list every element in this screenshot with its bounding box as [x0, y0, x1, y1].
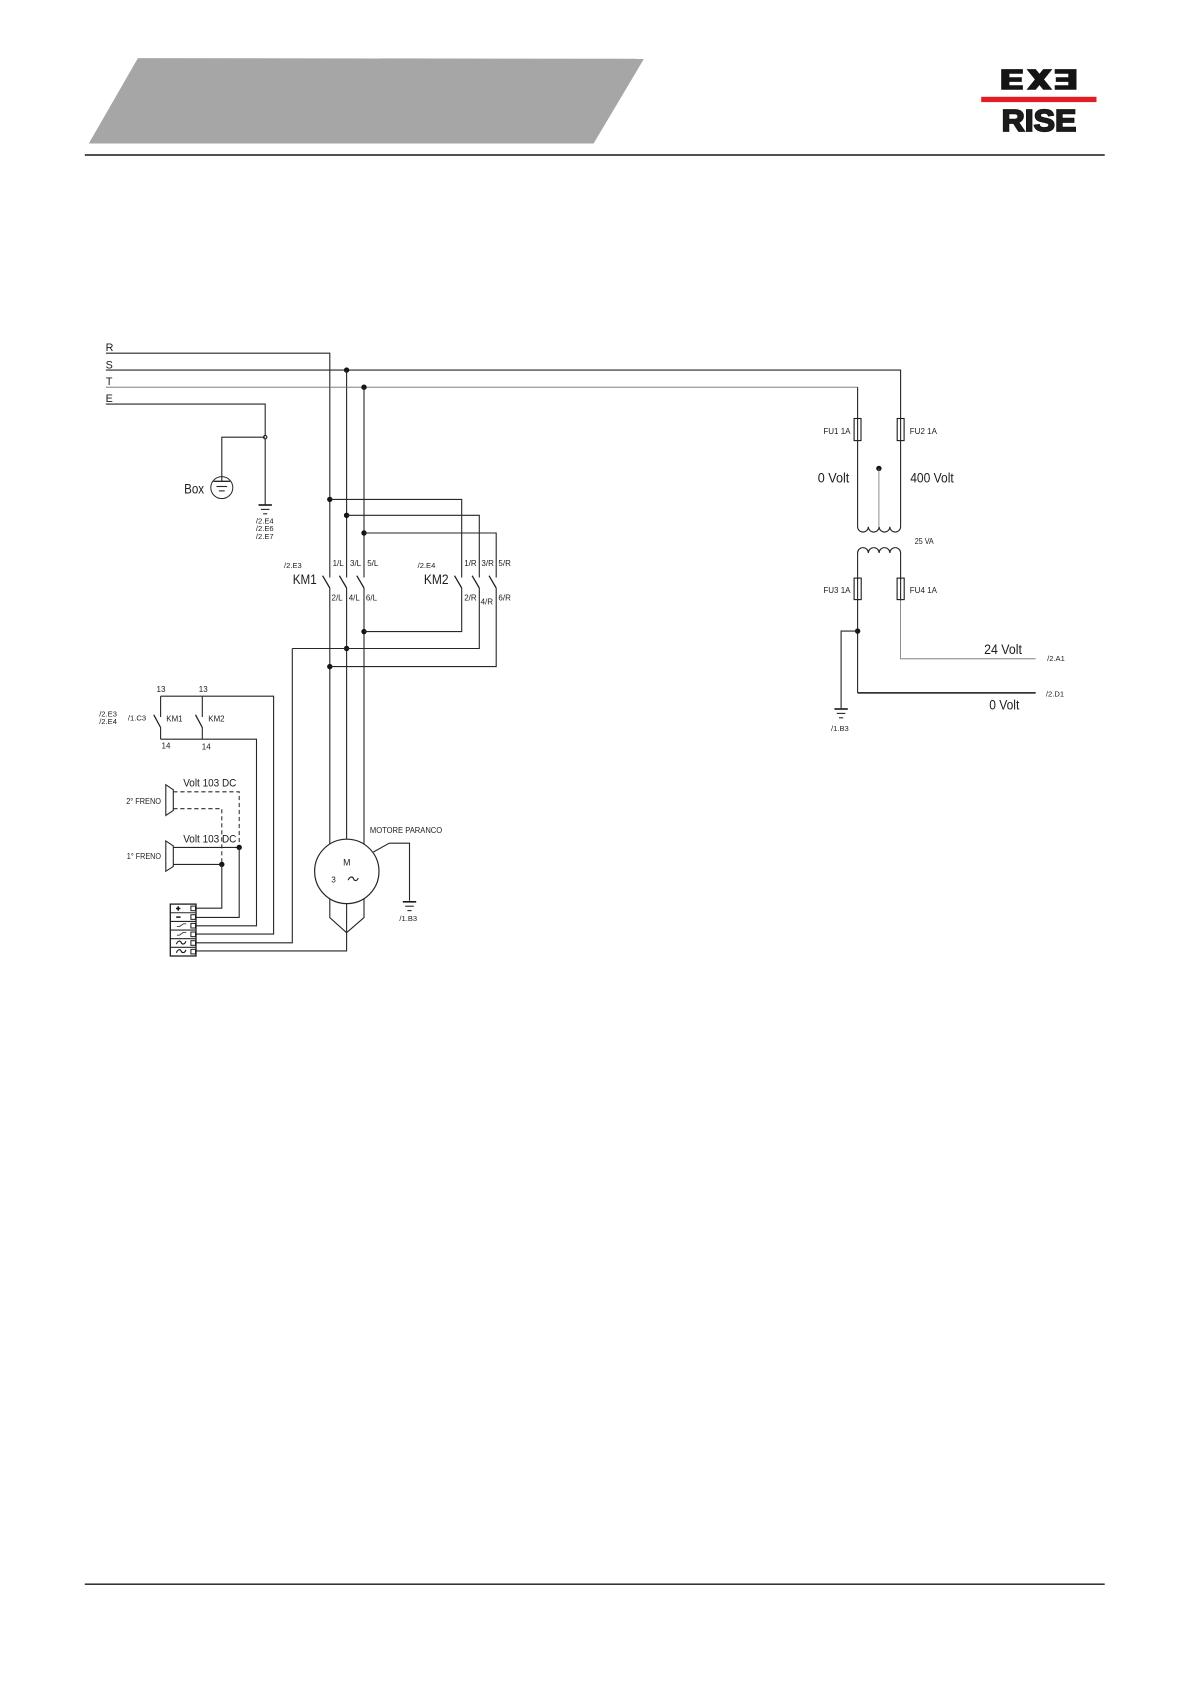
- wire brake2 minus (dashed): [173, 809, 222, 865]
- brake 2 coil symbol: [166, 785, 174, 816]
- wire E rail: [106, 404, 265, 504]
- logo EXE wordmark: [1001, 69, 1076, 90]
- svg-text:R: R: [106, 342, 114, 354]
- wire 24 Volt output: [901, 600, 1036, 659]
- svg-text:14: 14: [202, 742, 211, 751]
- footer rule line: [85, 1583, 1105, 1585]
- transformer TC1 primary winding: [858, 419, 901, 533]
- wire primary center tap: [878, 468, 880, 526]
- wire brake2 plus (dashed): [173, 792, 239, 848]
- svg-text:E: E: [106, 393, 113, 405]
- wire S rail: [106, 370, 901, 418]
- svg-text:T: T: [106, 376, 113, 388]
- aux contact KM1 bottom pin: [160, 728, 162, 740]
- wire motor star left: [330, 899, 347, 933]
- motor tilde: [348, 877, 358, 881]
- node R branch: [327, 497, 332, 502]
- terminal 4 clamp square: [191, 932, 196, 937]
- fuse FU3: [854, 578, 861, 600]
- wire R rail: [106, 353, 330, 577]
- svg-text:/2.D1: /2.D1: [1046, 690, 1064, 699]
- svg-text:KM2: KM2: [208, 714, 225, 723]
- wire phase W to motor: [363, 588, 365, 844]
- ground PE symbol: [259, 505, 272, 514]
- svg-text:5/R: 5/R: [498, 559, 511, 568]
- node T junction: [361, 385, 366, 390]
- node secondary ground junction: [855, 628, 860, 633]
- wire R branch to KM2 1/R: [330, 499, 462, 577]
- svg-text:0 Volt: 0 Volt: [818, 470, 850, 486]
- node brake minus junction: [219, 862, 224, 867]
- terminal 4 dc mark: [177, 932, 186, 935]
- svg-text:2° FRENO: 2° FRENO: [126, 797, 161, 806]
- svg-text:25 VA: 25 VA: [915, 537, 934, 546]
- svg-text:KM1: KM1: [166, 714, 183, 723]
- terminal 5 clamp square: [191, 941, 196, 946]
- node E branch ring: [264, 436, 267, 439]
- terminal 3 dc mark: [177, 924, 186, 927]
- wire T rail: [106, 386, 858, 388]
- secondary ground symbol: [834, 709, 847, 718]
- wire brake minus to terminal 1: [196, 864, 222, 908]
- svg-text:13: 13: [157, 685, 166, 694]
- aux contact KM2 top pin: [201, 696, 203, 717]
- svg-text:KM2: KM2: [424, 572, 449, 588]
- terminal 1 clamp square: [191, 906, 196, 911]
- svg-text:FU3 1A: FU3 1A: [823, 586, 851, 595]
- svg-text:3/L: 3/L: [350, 559, 362, 568]
- contactor KM2 pole 1 blade: [455, 576, 462, 588]
- svg-text:/2.E4: /2.E4: [418, 561, 436, 570]
- node T branch: [361, 530, 366, 535]
- svg-text:400 Volt: 400 Volt: [910, 470, 954, 486]
- wire to secondary ground: [841, 631, 858, 708]
- header rule line: [85, 154, 1105, 156]
- node S junction: [344, 367, 349, 372]
- fuse FU4: [897, 578, 904, 600]
- wire motor frame to ground: [373, 843, 409, 901]
- svg-text:14: 14: [162, 741, 171, 750]
- svg-text:M: M: [343, 858, 350, 868]
- aux contact KM1 top pin: [160, 696, 162, 717]
- svg-text:5/L: 5/L: [367, 559, 379, 568]
- Box earth electrode: [211, 477, 233, 499]
- svg-text:MOTORE PARANCO: MOTORE PARANCO: [370, 826, 442, 835]
- svg-text:KM1: KM1: [293, 572, 317, 588]
- terminal 2 minus mark: [176, 916, 180, 918]
- wire phase V to motor: [346, 588, 348, 839]
- svg-text:/2.E4: /2.E4: [99, 717, 117, 726]
- svg-text:3: 3: [331, 875, 336, 884]
- node V-4R junction: [344, 646, 349, 651]
- fuse FU1: [854, 419, 861, 441]
- svg-text:13: 13: [199, 685, 208, 694]
- node primary tap: [876, 466, 881, 471]
- svg-text:1° FRENO: 1° FRENO: [127, 852, 161, 861]
- wire T drop to FU1: [857, 387, 859, 418]
- terminal 6 clamp square: [191, 949, 196, 954]
- wire phase U to motor: [329, 588, 331, 844]
- logo red underline: [981, 97, 1096, 102]
- wire aux top rail to terminal 4: [161, 696, 274, 934]
- svg-text:/2.A1: /2.A1: [1047, 654, 1065, 663]
- svg-text:0 Volt: 0 Volt: [989, 697, 1019, 713]
- header gray parallelogram banner: [89, 58, 644, 143]
- svg-text:FU1 1A: FU1 1A: [823, 427, 851, 436]
- svg-text:FU2 1A: FU2 1A: [910, 427, 938, 436]
- wire T drop to KM1 5/L: [363, 387, 365, 577]
- svg-text:/1.B3: /1.B3: [399, 914, 417, 923]
- node W-2R junction: [361, 629, 366, 634]
- wire 2/L to 6/R: [330, 588, 496, 667]
- fuse FU2: [897, 419, 904, 441]
- svg-text:Volt 103 DC: Volt 103 DC: [183, 834, 236, 846]
- terminal block X1: [170, 904, 196, 956]
- svg-text:RISE: RISE: [1002, 104, 1077, 138]
- brake 1 coil symbol: [166, 841, 174, 871]
- svg-text:6/L: 6/L: [366, 594, 378, 603]
- svg-text:/2.E7: /2.E7: [256, 532, 274, 541]
- wire E to Box electrode: [222, 437, 265, 477]
- aux contact KM2 blade: [196, 715, 203, 728]
- svg-text:1/L: 1/L: [333, 559, 345, 568]
- wire motor star center: [346, 904, 348, 933]
- svg-text:4/R: 4/R: [481, 597, 494, 606]
- svg-text:1/R: 1/R: [464, 559, 477, 568]
- node U-6R junction: [327, 664, 332, 669]
- wire brake1 plus: [173, 846, 239, 848]
- wire 4/L to 4/R and left drop: [292, 588, 479, 649]
- svg-text:FU4 1A: FU4 1A: [910, 586, 938, 595]
- terminal 1 plus mark: [176, 906, 180, 910]
- wire aux bottom rail to terminal 3: [161, 739, 257, 926]
- contactor KM2 pole 3 blade: [489, 576, 496, 588]
- aux contact KM2 bottom pin: [201, 728, 203, 740]
- svg-text:2/L: 2/L: [332, 594, 344, 603]
- svg-text:S: S: [106, 359, 113, 371]
- terminal 5 ac mark: [176, 941, 186, 944]
- contactor KM1 pole 2 blade: [339, 576, 346, 588]
- motor ground symbol: [403, 902, 416, 911]
- wire left drop to terminal 5: [196, 649, 292, 943]
- node brake plus junction: [237, 845, 242, 850]
- svg-text:3/R: 3/R: [481, 559, 494, 568]
- wire S branch to KM2 3/R: [347, 515, 480, 577]
- transformer TC1 secondary winding: [858, 548, 901, 601]
- wire motor star right: [347, 899, 364, 933]
- contactor KM2 pole 2 blade: [472, 576, 479, 588]
- wire T branch to KM2 5/R: [364, 533, 496, 578]
- node S branch: [344, 513, 349, 518]
- svg-text:6/R: 6/R: [498, 594, 511, 603]
- svg-text:/2.E3: /2.E3: [284, 561, 302, 570]
- svg-text:Volt 103 DC: Volt 103 DC: [183, 778, 236, 790]
- wire 6/L to 2/R: [364, 588, 462, 632]
- wire FU3 to 0 Volt out: [857, 600, 859, 693]
- motor M1 circle: [315, 839, 379, 903]
- svg-text:2/R: 2/R: [464, 594, 477, 603]
- wire brake plus to terminal 2: [196, 847, 239, 917]
- aux contact KM1 blade: [154, 715, 161, 728]
- wire 0 Volt output: [858, 692, 1036, 694]
- svg-text:Box: Box: [184, 482, 204, 498]
- terminal 3 clamp square: [191, 923, 196, 928]
- wire S drop to KM1 3/L: [346, 370, 348, 577]
- svg-text:/1.B3: /1.B3: [831, 724, 849, 733]
- wire brake1 minus: [173, 863, 222, 865]
- svg-text:24 Volt: 24 Volt: [984, 642, 1022, 658]
- terminal 2 clamp square: [191, 915, 196, 920]
- contactor KM1 pole 1 blade: [323, 576, 330, 588]
- svg-text:/1.C3: /1.C3: [128, 714, 146, 723]
- contactor KM1 pole 3 blade: [357, 576, 364, 588]
- svg-text:4/L: 4/L: [349, 594, 361, 603]
- wire star point to terminal 6: [196, 933, 347, 951]
- terminal 6 ac mark: [176, 950, 186, 953]
